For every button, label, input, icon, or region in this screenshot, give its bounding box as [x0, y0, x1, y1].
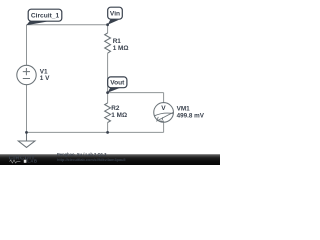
- svg-text:V: V: [161, 105, 166, 112]
- svg-text:Penghao_Xu / Lab 2 Q1.3: Penghao_Xu / Lab 2 Q1.3: [57, 152, 107, 157]
- svg-text:LAB: LAB: [27, 159, 37, 164]
- svg-text:499.8 mV: 499.8 mV: [177, 113, 205, 120]
- svg-text:1 MΩ: 1 MΩ: [111, 112, 127, 119]
- svg-text:Vin: Vin: [110, 11, 120, 18]
- svg-text:Circuit_1: Circuit_1: [31, 13, 60, 20]
- svg-text:1 MΩ: 1 MΩ: [113, 45, 129, 52]
- svg-text:http://circuitlab.com/c/9dkv4a: http://circuitlab.com/c/9dkv4am3pau5: [57, 158, 126, 162]
- svg-text:1 V: 1 V: [40, 75, 50, 82]
- svg-text:Vout: Vout: [110, 80, 125, 87]
- svg-text:VM1: VM1: [177, 105, 191, 112]
